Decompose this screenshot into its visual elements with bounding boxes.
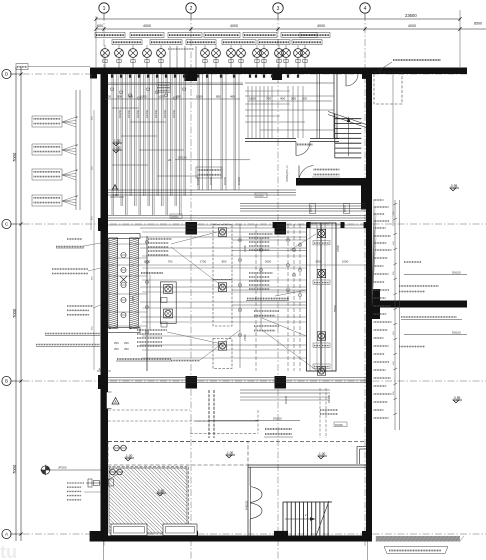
interior wall tank room — [296, 178, 366, 186]
svg-text:DN150: DN150 — [335, 424, 343, 427]
pump P13 top row — [282, 49, 291, 58]
left riser lines — [75, 90, 77, 210]
pipe bundle y225 — [108, 224, 366, 226]
pipe rack with fittings — [109, 238, 118, 328]
svg-text:-0.95: -0.95 — [453, 396, 460, 400]
riser pipes upper-left room — [111, 74, 113, 215]
svg-text:200: 200 — [302, 97, 307, 101]
wall left corner tab — [90, 74, 97, 79]
svg-text:450: 450 — [230, 95, 235, 99]
small label pair top room — [157, 83, 170, 88]
svg-text:DN150: DN150 — [154, 109, 158, 118]
column left wall B — [98, 375, 108, 389]
grid line row B — [10, 380, 486, 382]
inner wall face top — [108, 82, 243, 84]
pilaster right wall — [366, 289, 380, 319]
svg-text:DN150: DN150 — [145, 109, 149, 118]
svg-text:23600: 23600 — [405, 13, 417, 18]
svg-text:4: 4 — [364, 6, 367, 12]
svg-text:500: 500 — [117, 95, 122, 99]
svg-text:tu: tu — [0, 542, 17, 560]
pump P7 top row — [212, 49, 221, 58]
wall bottom left corner — [90, 531, 108, 542]
riser pipes tank room — [247, 86, 249, 138]
elevation -1.30 a — [113, 143, 119, 146]
svg-text:FM1221: FM1221 — [244, 500, 248, 510]
rack center symbols — [120, 276, 127, 283]
pump suction boxes — [161, 298, 167, 303]
label vent 800x1000 — [399, 285, 439, 287]
pump unit frame — [160, 282, 176, 323]
vent triangle marks — [112, 185, 118, 191]
tank corner blocks — [273, 222, 277, 228]
svg-text:600: 600 — [97, 24, 103, 28]
elevation -1.80 pit — [157, 493, 163, 496]
pump P12 top row — [275, 49, 284, 58]
svg-text:5500: 5500 — [333, 305, 337, 312]
label pump set 4 — [67, 305, 93, 307]
wall bottom — [108, 536, 372, 542]
lower pipes extra — [319, 388, 321, 438]
column grid 3-B — [275, 376, 287, 389]
label distribution room — [171, 360, 200, 362]
elevation pit east — [318, 456, 324, 459]
riser label row 2 — [112, 40, 142, 45]
svg-text:-1.00: -1.00 — [226, 451, 233, 455]
paving strip bottom right — [376, 536, 460, 542]
elevation right pit — [226, 455, 232, 458]
tank room door — [296, 142, 310, 156]
grid line column 3 — [277, 14, 279, 560]
pipe bundle y215 — [108, 215, 366, 217]
svg-text:7000: 7000 — [12, 152, 17, 162]
svg-text:DN150: DN150 — [118, 109, 122, 118]
svg-text:1000: 1000 — [140, 95, 147, 99]
svg-text:-1.10: -1.10 — [98, 367, 105, 371]
pipe bundle y190 — [108, 189, 296, 191]
pump P8 top row — [227, 49, 236, 58]
riser pair between pump groups — [169, 46, 171, 68]
svg-text:B: B — [5, 379, 8, 384]
stair upper break line — [328, 112, 366, 125]
pump P1 top row — [101, 49, 110, 58]
label 2-1 supply pump — [196, 167, 222, 178]
wall right — [366, 74, 372, 542]
svg-text:500: 500 — [291, 97, 296, 101]
svg-text:-1.00: -1.00 — [318, 452, 325, 456]
water tank right — [321, 223, 336, 371]
pit dashed outline — [108, 440, 366, 442]
line below stair room — [366, 542, 368, 560]
dn150 tag b — [334, 422, 347, 427]
svg-text:2700: 2700 — [243, 334, 247, 341]
tank room label — [297, 144, 313, 146]
svg-text:DN150: DN150 — [127, 109, 131, 118]
grid bubble C — [2, 219, 11, 228]
text block pump set 2 (fire pump) — [137, 329, 167, 331]
riser leader lines top — [104, 45, 106, 49]
elevation -1.00 pit — [125, 458, 131, 461]
label sill note — [36, 344, 100, 346]
pump P15 top row — [301, 49, 310, 58]
svg-text:1: 1 — [103, 6, 106, 12]
equipment bay 2 — [213, 280, 232, 327]
elevation -1.30 b — [113, 150, 119, 153]
pump P5 top row — [157, 49, 166, 58]
wall top — [90, 68, 467, 75]
label pump foundation typ — [117, 358, 171, 360]
svg-text:1750: 1750 — [131, 296, 135, 303]
label window recess — [52, 268, 88, 270]
label wall note 300 — [45, 333, 100, 335]
svg-text:250: 250 — [124, 347, 129, 351]
svg-text:700: 700 — [168, 260, 173, 264]
pipe main x147 — [146, 236, 148, 371]
column left wall C — [98, 218, 108, 231]
dim row mid — [108, 264, 366, 266]
tank pump group 4 — [317, 367, 325, 375]
stair room double door — [251, 487, 263, 503]
svg-text:DN150: DN150 — [345, 204, 347, 212]
wall stub right wing — [372, 301, 467, 308]
svg-text:DN100: DN100 — [452, 271, 461, 275]
svg-text:400: 400 — [280, 97, 285, 101]
dashed shaft right of wall — [374, 72, 402, 104]
left dimension line — [15, 67, 17, 541]
valve ticks pump room — [146, 241, 148, 243]
svg-text:2700: 2700 — [243, 245, 247, 252]
bay dimension line — [96, 28, 486, 30]
left label box c — [32, 169, 62, 180]
svg-text:1000: 1000 — [158, 95, 165, 99]
pump P9 top row — [237, 49, 246, 58]
pump P2 top row — [115, 49, 124, 58]
tank room pipes h — [245, 95, 334, 97]
grid bubble B — [2, 376, 11, 385]
grid line row A — [10, 533, 486, 535]
svg-text:DN150: DN150 — [327, 394, 331, 403]
duct chase dashed pair — [208, 390, 210, 438]
svg-text:850: 850 — [216, 95, 221, 99]
label 2-1 outlet — [314, 169, 340, 171]
svg-text:-1.30: -1.30 — [113, 146, 120, 150]
dimension extension lines top — [95, 16, 97, 67]
svg-text:600: 600 — [106, 95, 111, 99]
pit dashed border — [188, 467, 190, 533]
wall bottom right tab — [362, 531, 366, 536]
column grid 3-top — [272, 71, 282, 80]
column grid 2-B — [186, 376, 198, 389]
pipe connectors upper-left — [112, 107, 139, 109]
svg-text:DN200: DN200 — [273, 417, 282, 421]
right dim chain — [394, 200, 396, 430]
grid line column 1 — [103, 14, 105, 548]
grid line row D — [10, 73, 467, 75]
svg-text:3650: 3650 — [265, 260, 272, 264]
riser pipes upper-middle — [197, 74, 199, 190]
pit equipment box mid — [163, 524, 197, 536]
grid line column 4 — [364, 14, 366, 548]
svg-text:DN150: DN150 — [284, 395, 288, 404]
column grid 2-top — [185, 70, 198, 81]
svg-text:DN150: DN150 — [196, 176, 200, 185]
stair upper treads — [335, 118, 362, 120]
svg-text:1000: 1000 — [342, 260, 349, 264]
label lifting hole — [404, 261, 421, 263]
label zi qian guan — [141, 272, 163, 274]
svg-text:-1.30: -1.30 — [113, 139, 120, 143]
pit equipment box left — [111, 524, 147, 536]
svg-text:DN150: DN150 — [136, 109, 140, 118]
svg-text:DN100: DN100 — [452, 331, 461, 335]
svg-text:DN150: DN150 — [172, 109, 176, 118]
pipe bundle y203 — [240, 203, 366, 205]
left label box b — [32, 144, 62, 155]
svg-text:2: 2 — [190, 6, 193, 12]
grid bubble 3 — [273, 3, 283, 13]
pump P6 top row — [201, 49, 210, 58]
dashed lines above pit — [190, 433, 258, 435]
svg-text:7000: 7000 — [12, 308, 17, 318]
wall right top tab — [362, 73, 366, 79]
riser label row 1 — [95, 32, 125, 37]
svg-text:DN150: DN150 — [209, 176, 213, 185]
label small box top-left corner — [16, 64, 28, 70]
column bottom grid 2 — [184, 531, 198, 537]
wall left — [101, 74, 109, 542]
svg-text:DN150(XHL-1): DN150(XHL-1) — [286, 165, 289, 182]
svg-text:DN150: DN150 — [223, 176, 227, 185]
valve marks upper risers — [111, 88, 114, 90]
pump P10 top row — [253, 49, 262, 58]
svg-text:4000: 4000 — [317, 24, 325, 28]
stair bottom arrow — [285, 518, 313, 520]
stair bottom treads — [282, 502, 284, 536]
svg-text:500: 500 — [128, 95, 133, 99]
pump P3 top row — [129, 49, 138, 58]
svg-text:4000: 4000 — [143, 24, 151, 28]
svg-text:DN200: DN200 — [171, 216, 179, 219]
survey point — [41, 466, 49, 474]
label 2-1 inlet — [265, 428, 292, 430]
leader diagonals pump room — [171, 232, 217, 244]
column grid 3-C — [275, 222, 287, 235]
overall dimension line 23600 — [96, 18, 460, 20]
svg-text:-0.95: -0.95 — [450, 184, 457, 188]
svg-text:DN150: DN150 — [311, 204, 313, 212]
svg-text:1000: 1000 — [196, 95, 203, 99]
grid bubble 4 — [360, 3, 370, 13]
text block transfer pump — [249, 272, 273, 274]
tank room partition — [316, 74, 318, 139]
label marine pump — [254, 310, 279, 312]
svg-text:4000: 4000 — [230, 24, 238, 28]
stair room niche — [357, 446, 369, 448]
pump unit A — [164, 285, 173, 294]
left wall dim chain — [90, 74, 92, 230]
pipe entry fitting left wall — [88, 479, 92, 487]
label bottom right — [384, 547, 448, 554]
label drain right — [399, 346, 425, 348]
interior dimension row left room — [105, 98, 240, 100]
pump unit B — [164, 309, 173, 318]
interior dimension row right room — [248, 100, 332, 102]
right leader diagonals — [372, 200, 374, 285]
stair room walls — [248, 464, 369, 466]
svg-text:DN150: DN150 — [256, 195, 264, 198]
grid line row C — [10, 223, 486, 225]
svg-text:JP200: JP200 — [58, 466, 67, 470]
pipe bundle labels — [310, 204, 316, 214]
warning triangle door — [112, 398, 119, 405]
pump P11 top row — [260, 49, 269, 58]
grid bubble D — [2, 69, 11, 78]
tank pump group 3 — [317, 332, 325, 340]
pump P14 top row — [294, 49, 303, 58]
svg-text:-1.80: -1.80 — [157, 489, 164, 493]
equipment bay 1 — [213, 225, 232, 280]
svg-text:3: 3 — [277, 6, 280, 12]
sump pump pair 2 — [110, 469, 116, 475]
interior wall pier right — [361, 186, 367, 210]
grid bubble A — [2, 529, 11, 538]
text block pump set 1 — [148, 238, 172, 240]
text block inlet note — [67, 482, 84, 484]
svg-text:DN150: DN150 — [178, 156, 187, 160]
tank pump group 2 — [317, 269, 325, 277]
riser flanges under wall — [111, 75, 113, 78]
stair upper arrow — [348, 119, 350, 156]
equipment bay 3 — [213, 339, 232, 369]
svg-text:8500: 8500 — [474, 22, 482, 26]
svg-text:250: 250 — [124, 341, 129, 345]
label pump foundation 850 — [247, 298, 289, 300]
svg-text:850: 850 — [176, 95, 181, 99]
pump room pipes v — [255, 224, 257, 371]
svg-text:DN150: DN150 — [163, 109, 167, 118]
stair landing door — [346, 74, 358, 86]
inner face right room — [245, 82, 334, 84]
svg-text:250: 250 — [114, 347, 119, 351]
sump pump pair 1 — [114, 445, 120, 451]
svg-text:250: 250 — [114, 341, 119, 345]
grid line column 2 — [190, 14, 192, 560]
svg-text:-1.00: -1.00 — [125, 454, 132, 458]
svg-text:800: 800 — [316, 260, 321, 264]
label 800x800 recess — [67, 238, 82, 240]
pump room pipes h — [140, 236, 306, 238]
svg-text:2700: 2700 — [336, 245, 340, 252]
pump room door — [299, 166, 314, 182]
svg-text:2F: 2F — [168, 158, 172, 162]
grid bubble 2 — [186, 3, 196, 13]
label roof drain top right — [393, 59, 441, 61]
pipe bundle bottom — [108, 377, 366, 379]
svg-text:700: 700 — [266, 97, 271, 101]
svg-text:4000: 4000 — [408, 24, 416, 28]
elevation marker right lower — [453, 400, 459, 403]
label foundation right — [401, 316, 457, 318]
tank room wall — [245, 138, 296, 140]
tank pump group 1 — [317, 229, 325, 237]
stair bottom break line — [316, 501, 329, 536]
left label box a — [32, 116, 62, 127]
pump P4 top row — [143, 49, 152, 58]
label hydrant booster — [254, 325, 279, 327]
column grid 2-C — [186, 222, 198, 235]
grid bubble 1 — [99, 3, 109, 13]
leader inlet — [84, 491, 101, 493]
svg-text:DN150: DN150 — [237, 176, 241, 185]
hatched sump pit — [109, 468, 187, 533]
svg-text:1600: 1600 — [249, 97, 256, 101]
svg-text:7000: 7000 — [12, 464, 17, 474]
column bottom grid 3 — [274, 531, 288, 537]
elevation marker right upper — [450, 188, 456, 191]
water tank left — [307, 223, 322, 371]
svg-text:850: 850 — [222, 260, 227, 264]
text block hydrant pump — [249, 233, 273, 235]
svg-text:2700: 2700 — [200, 260, 207, 264]
right annotation stack — [374, 199, 384, 201]
left label box d — [32, 195, 62, 206]
